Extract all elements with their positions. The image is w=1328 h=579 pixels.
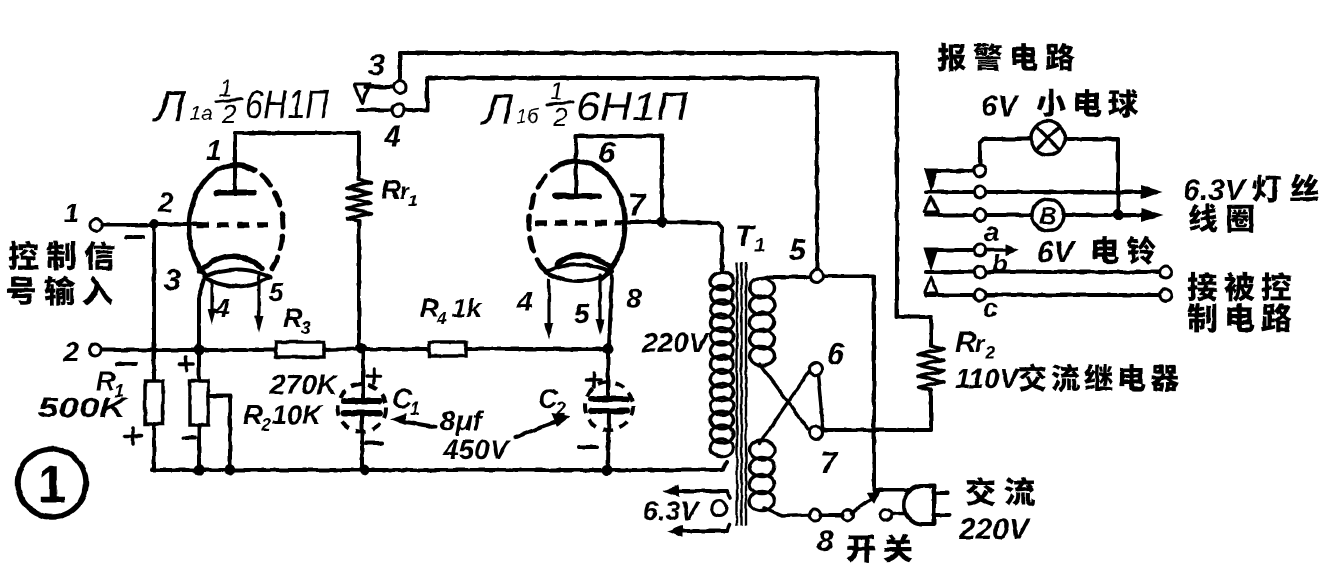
svg-text:6Н1П: 6Н1П — [245, 83, 330, 127]
svg-text:220V: 220V — [958, 513, 1032, 546]
svg-text:a: a — [984, 217, 999, 247]
svg-text:R: R — [955, 326, 977, 359]
svg-text:6.3V: 6.3V — [1183, 174, 1248, 207]
svg-text:7: 7 — [628, 187, 648, 223]
svg-text:B: B — [1039, 203, 1056, 230]
svg-text:4: 4 — [436, 309, 447, 328]
svg-text:Т: Т — [735, 220, 756, 253]
svg-text:6: 6 — [598, 135, 616, 170]
svg-text:5: 5 — [789, 234, 807, 267]
svg-text:R: R — [243, 400, 263, 430]
svg-text:1: 1 — [754, 235, 765, 257]
svg-text:2: 2 — [552, 102, 568, 132]
svg-text:3: 3 — [164, 262, 181, 297]
svg-text:2: 2 — [221, 99, 237, 129]
svg-text:1: 1 — [206, 135, 222, 166]
svg-text:6: 6 — [827, 336, 845, 371]
svg-text:7: 7 — [820, 445, 839, 480]
svg-text:6V: 6V — [1037, 236, 1077, 269]
svg-text:3: 3 — [368, 49, 385, 82]
svg-text:c: c — [983, 293, 998, 323]
svg-text:Л: Л — [480, 85, 514, 134]
svg-text:5: 5 — [269, 277, 284, 307]
svg-text:500K: 500K — [38, 392, 128, 423]
svg-text:1: 1 — [550, 78, 563, 105]
svg-text:4: 4 — [214, 293, 230, 323]
svg-text:450V: 450V — [442, 434, 511, 465]
svg-text:R: R — [283, 303, 303, 333]
svg-text:2: 2 — [63, 337, 79, 367]
svg-text:R: R — [381, 174, 402, 205]
svg-text:2: 2 — [260, 415, 271, 435]
svg-text:2: 2 — [555, 399, 566, 419]
svg-text:110V: 110V — [955, 363, 1021, 394]
svg-text:6V: 6V — [981, 90, 1021, 123]
svg-text:2: 2 — [157, 187, 174, 218]
svg-text:8μf: 8μf — [440, 405, 484, 436]
svg-text:6Н1П: 6Н1П — [576, 85, 689, 129]
svg-text:1k: 1k — [452, 293, 482, 323]
svg-text:5: 5 — [574, 298, 590, 329]
svg-text:4: 4 — [516, 286, 533, 317]
svg-text:1: 1 — [38, 456, 67, 514]
svg-text:220V: 220V — [641, 327, 710, 358]
svg-text:4: 4 — [383, 120, 401, 153]
svg-text:270K: 270K — [269, 369, 339, 400]
svg-text:1: 1 — [408, 191, 417, 210]
svg-text:Л: Л — [152, 82, 186, 131]
svg-text:1б: 1б — [516, 106, 539, 128]
svg-text:8: 8 — [817, 525, 834, 558]
svg-text:1a: 1a — [190, 103, 212, 125]
svg-text:1: 1 — [410, 399, 420, 419]
svg-text:6.3V: 6.3V — [643, 496, 701, 526]
svg-text:8: 8 — [626, 283, 642, 314]
svg-text:1: 1 — [64, 198, 79, 228]
svg-text:2: 2 — [984, 343, 995, 363]
svg-text:3: 3 — [301, 318, 311, 338]
svg-text:1: 1 — [219, 75, 232, 102]
svg-text:10K: 10K — [272, 400, 324, 430]
